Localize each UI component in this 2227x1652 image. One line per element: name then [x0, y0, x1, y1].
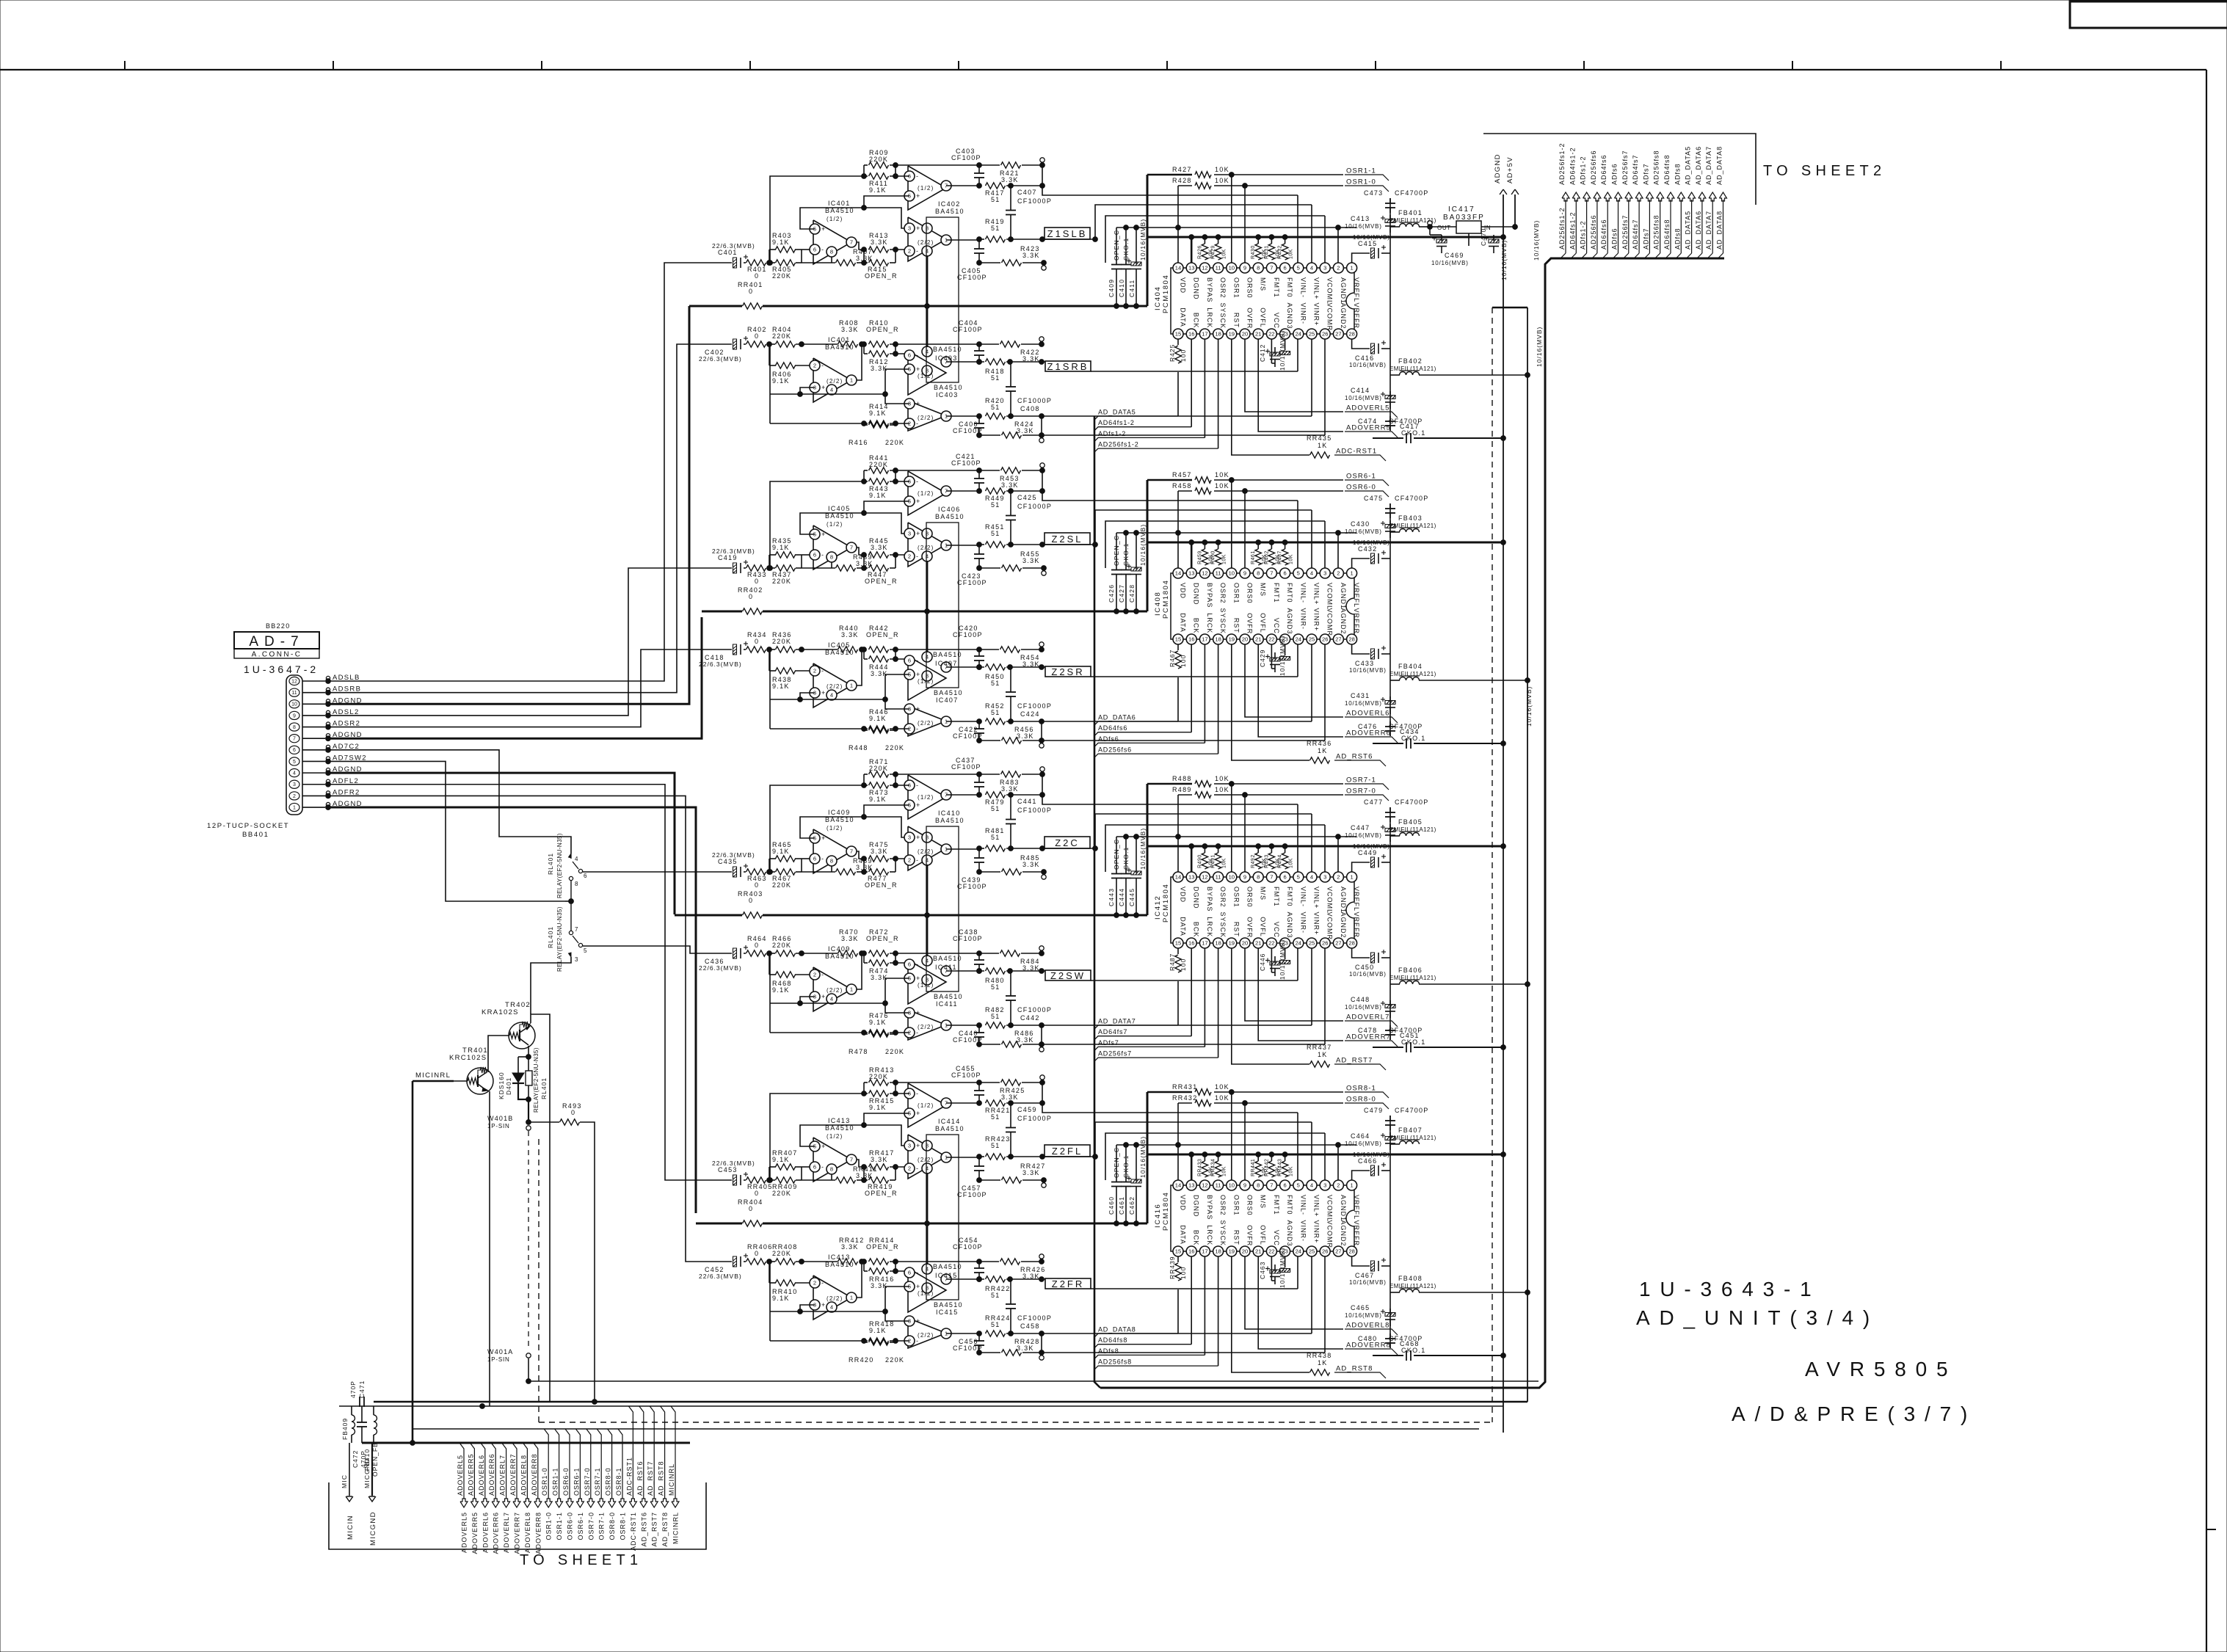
- wire: [802, 1166, 810, 1168]
- node ADfs1-2 to sheet2: [1583, 192, 1591, 201]
- pin 6 AD7C2: [289, 746, 299, 754]
- wire top rail: [979, 164, 1000, 166]
- resistor R438 9.1K: [776, 668, 796, 674]
- svg-text:FMT0: FMT0: [1286, 887, 1293, 907]
- wire: [769, 249, 776, 250]
- svg-text:+: +: [821, 1301, 825, 1309]
- power box: [926, 826, 959, 991]
- svg-text:9.1K: 9.1K: [869, 1327, 887, 1334]
- svg-text:ADOVERL5: ADOVERL5: [1346, 404, 1390, 412]
- wire TR402 collector: [528, 1046, 529, 1057]
- border frame: [0, 69, 2206, 70]
- wire AD7SW2 route: [328, 761, 565, 901]
- resistor RR405 0: [746, 1177, 766, 1183]
- resistor R470 3.3K: [838, 950, 858, 956]
- op-amp IC410 (2/2): [908, 826, 946, 870]
- ferrite bead FB401 EMIFIL: [1390, 226, 1400, 228]
- svg-text:28: 28: [1348, 1248, 1354, 1255]
- svg-text:KRC102S: KRC102S: [449, 1054, 487, 1062]
- svg-text:10/16(MVB): 10/16(MVB): [1536, 327, 1543, 367]
- svg-text:VREFL: VREFL: [1353, 583, 1360, 608]
- svg-text:DATA: DATA: [1180, 613, 1187, 633]
- wire Z out riser: [1095, 510, 1312, 545]
- svg-text:21: 21: [1255, 331, 1261, 338]
- svg-text:R487: R487: [1278, 550, 1283, 564]
- svg-text:+: +: [916, 834, 920, 841]
- svg-text:IC406: IC406: [938, 506, 961, 513]
- svg-text:10K: 10K: [1222, 554, 1227, 564]
- node AD+5V: [1514, 194, 1516, 230]
- svg-text:-: -: [916, 725, 918, 732]
- svg-text:5: 5: [1297, 265, 1300, 272]
- svg-text:VINR-: VINR-: [1299, 608, 1307, 630]
- svg-text:3: 3: [1323, 874, 1326, 881]
- pin 5 AD7SW2: [289, 757, 299, 765]
- svg-text:1: 1: [1350, 570, 1353, 577]
- svg-text:MICIN: MICIN: [346, 1515, 355, 1540]
- wire ADFL2 route: [328, 785, 732, 1180]
- svg-text:C477: C477: [1364, 798, 1383, 806]
- svg-text:9.1K: 9.1K: [869, 186, 887, 194]
- svg-text:0: 0: [755, 881, 759, 889]
- svg-text:AD_RST8: AD_RST8: [1336, 1365, 1373, 1373]
- svg-text:RR436: RR436: [1307, 740, 1332, 747]
- svg-text:+: +: [916, 498, 920, 505]
- wire 5+ rail: [885, 1287, 909, 1311]
- svg-text:6: 6: [908, 352, 911, 359]
- svg-text:11: 11: [1216, 1182, 1221, 1189]
- wire RST net: [1232, 339, 1309, 455]
- svg-text:13: 13: [1188, 1182, 1194, 1189]
- wire MICINRL down thick: [412, 1081, 414, 1443]
- svg-text:C412: C412: [1259, 344, 1266, 362]
- svg-text:R462: R462: [1264, 550, 1269, 564]
- svg-text:3.3K: 3.3K: [1022, 861, 1040, 868]
- wire: [1006, 666, 1045, 668]
- resistor R469 3.3K: [836, 869, 856, 875]
- wire 3+ to rail: [885, 394, 909, 404]
- svg-text:AGND1: AGND1: [1340, 583, 1347, 609]
- svg-text:10/16(MVB): 10/16(MVB): [1345, 395, 1382, 401]
- capacitor C416 10/16(MVB): [1371, 343, 1375, 354]
- svg-text:R459: R459: [1197, 550, 1202, 564]
- capacitor C426 OPEN_C: [1116, 533, 1117, 570]
- svg-text:4: 4: [1310, 874, 1313, 881]
- svg-text:OPEN_R: OPEN_R: [865, 578, 898, 585]
- svg-text:51: 51: [991, 1142, 1000, 1149]
- node AD_RST6 to sheet1: [639, 1406, 644, 1499]
- svg-text:AD64fs6: AD64fs6: [1600, 219, 1607, 250]
- svg-text:VREFL: VREFL: [1353, 277, 1360, 302]
- svg-text:R448: R448: [849, 744, 868, 752]
- node AD64fs6: [1094, 732, 1191, 736]
- svg-text:EMIFIL(11A121): EMIFIL(11A121): [1389, 1283, 1436, 1289]
- svg-text:51: 51: [991, 1321, 1000, 1328]
- svg-text:ADOVERR6: ADOVERR6: [488, 1453, 495, 1496]
- svg-text:3.3K: 3.3K: [1022, 557, 1040, 564]
- capacitor C420 CF100P: [978, 649, 980, 656]
- svg-text:CF100P: CF100P: [953, 326, 983, 333]
- svg-text:13: 13: [1188, 874, 1194, 881]
- resistor R450 51: [986, 664, 1006, 670]
- node AD_DATA8 to sheet2: [1720, 192, 1727, 201]
- op-amp IC406 (1/2) top: [908, 471, 946, 515]
- svg-text:(1/2): (1/2): [918, 490, 934, 497]
- svg-text:10/16(MVB): 10/16(MVB): [1353, 843, 1390, 850]
- svg-text:AD256fs6: AD256fs6: [1098, 746, 1132, 754]
- wire VREFL cap: [1365, 262, 1366, 263]
- svg-text:CF100P: CF100P: [953, 1243, 983, 1251]
- svg-text:3.3K: 3.3K: [841, 1243, 859, 1251]
- wire FB401 out: [1419, 226, 1430, 228]
- svg-text:1P-SIN: 1P-SIN: [487, 1123, 510, 1129]
- wire bottom rail lower: [979, 1352, 1000, 1353]
- svg-text:(1/2): (1/2): [918, 1102, 934, 1109]
- wire bottom bus 1: [528, 1380, 1538, 1382]
- node AD64fs7 to sheet2: [1635, 192, 1643, 201]
- svg-text:AD_DATA8: AD_DATA8: [1098, 1326, 1136, 1333]
- svg-text:AD256fs1-2: AD256fs1-2: [1098, 441, 1139, 448]
- wire ADGND 4 route thick: [328, 773, 675, 914]
- svg-text:AD64fs6: AD64fs6: [1098, 724, 1127, 732]
- capacitor C459 CF1000P: [1010, 1103, 1011, 1128]
- wire bottom rail: [979, 1179, 1000, 1181]
- node Z1SLB: [1045, 228, 1090, 239]
- resistor RR423 51: [986, 1154, 1006, 1160]
- svg-text:IC407: IC407: [936, 696, 959, 704]
- wire: [979, 649, 999, 650]
- svg-text:IC411: IC411: [935, 964, 957, 971]
- wire pin7 to R: [857, 851, 864, 859]
- svg-text:CF100P: CF100P: [957, 883, 987, 890]
- svg-text:-: -: [821, 246, 824, 253]
- resistor R484 3.3K: [1000, 950, 1020, 956]
- svg-text:19: 19: [1229, 1248, 1235, 1255]
- svg-text:DGND: DGND: [1193, 277, 1200, 300]
- resistor R488 10K: [1195, 781, 1211, 787]
- wire: [744, 1261, 746, 1262]
- op-amp IC413 (2/2): [813, 1276, 851, 1320]
- svg-text:10K: 10K: [1289, 1166, 1294, 1176]
- svg-text:OSR1-0: OSR1-0: [545, 1512, 553, 1540]
- svg-text:220K: 220K: [772, 272, 791, 280]
- wire ADGND 7 route thick: [328, 617, 702, 738]
- resistor R493 0: [528, 1121, 559, 1123]
- resistor R452 51: [986, 718, 1006, 724]
- svg-text:R493: R493: [1264, 854, 1269, 868]
- node AD64fs8: [1094, 1344, 1191, 1348]
- node ADfs7: [1094, 1047, 1205, 1050]
- svg-text:R432: R432: [1278, 245, 1283, 259]
- svg-text:3.3K: 3.3K: [1022, 252, 1040, 259]
- svg-text:VINL-: VINL-: [1299, 583, 1307, 603]
- svg-text:ADOVERR8: ADOVERR8: [534, 1512, 542, 1554]
- svg-text:C471: C471: [358, 1380, 366, 1398]
- resistor RR425 3.3K: [1001, 1080, 1021, 1085]
- svg-text:VINL+: VINL+: [1313, 277, 1320, 299]
- svg-text:AD64fs1-2: AD64fs1-2: [1569, 147, 1576, 185]
- svg-text:3.3K: 3.3K: [871, 239, 888, 246]
- node Z2FR: [1045, 1278, 1091, 1289]
- svg-text:C431: C431: [1351, 692, 1370, 699]
- svg-text:C461: C461: [1118, 1196, 1125, 1215]
- svg-text:3: 3: [908, 1143, 911, 1149]
- resistor RR437 1K: [1310, 1061, 1330, 1067]
- svg-text:AD64fs1-2: AD64fs1-2: [1098, 419, 1135, 426]
- svg-text:OVFR: OVFR: [1246, 1225, 1254, 1246]
- svg-text:15: 15: [1175, 940, 1181, 947]
- svg-text:13: 13: [1188, 265, 1194, 272]
- svg-text:OSR1-1: OSR1-1: [552, 1467, 559, 1496]
- node ADGND: [1503, 194, 1504, 1433]
- svg-text:OVFR: OVFR: [1246, 308, 1254, 329]
- wire third out to ADC: [1042, 1333, 1312, 1334]
- wire TR401 emitter: [489, 1091, 490, 1406]
- wire opamp1 out up: [857, 1262, 862, 1298]
- svg-text:BA4510: BA4510: [935, 513, 964, 520]
- svg-text:2: 2: [908, 857, 911, 864]
- svg-text:ORS0: ORS0: [1246, 277, 1254, 299]
- svg-text:BA4510: BA4510: [934, 384, 963, 391]
- svg-text:19: 19: [1229, 636, 1235, 643]
- resistor R478 220K: [869, 1031, 889, 1037]
- resistor R424 3.3K: [1002, 432, 1022, 438]
- svg-text:ADGND: ADGND: [1494, 153, 1502, 183]
- wire ground bus thick: [689, 305, 742, 308]
- node ADC-RST1: [1334, 455, 1386, 461]
- wire ADSLB route: [328, 263, 732, 681]
- wire: [831, 562, 832, 568]
- wire: [857, 1179, 868, 1181]
- wire third out to ADC: [1042, 721, 1312, 722]
- svg-text:C459: C459: [1017, 1106, 1037, 1113]
- wire plus rail: [800, 817, 909, 838]
- svg-text:PCM1804: PCM1804: [1162, 1192, 1170, 1231]
- svg-text:EMIFIL(11A121): EMIFIL(11A121): [1389, 671, 1436, 677]
- op-amp IC402 (1/2) top: [908, 166, 946, 210]
- pin 9 ADSL2: [289, 711, 299, 719]
- wire bottom rail lower: [979, 1044, 1000, 1045]
- svg-text:9.1K: 9.1K: [772, 1295, 790, 1302]
- resistor R468 9.1K: [776, 972, 796, 978]
- resistor R456 3.3K: [1002, 738, 1022, 743]
- wire: [1006, 1278, 1045, 1280]
- svg-text:Z2FR: Z2FR: [1052, 1278, 1085, 1289]
- svg-text:1: 1: [1350, 874, 1353, 881]
- svg-text:10: 10: [1229, 570, 1235, 577]
- svg-text:6: 6: [813, 856, 816, 862]
- svg-text:ADOVERR5: ADOVERR5: [1346, 424, 1391, 432]
- svg-text:20: 20: [1242, 331, 1248, 338]
- op-amp IC414 (1/2) top: [908, 1083, 946, 1127]
- svg-text:RST: RST: [1232, 313, 1240, 328]
- svg-text:FB402: FB402: [1398, 357, 1423, 365]
- svg-text:VREFR: VREFR: [1353, 912, 1360, 939]
- svg-text:220K: 220K: [772, 638, 791, 645]
- svg-text:1: 1: [850, 986, 853, 993]
- wire: [769, 953, 770, 975]
- svg-text:3.3K: 3.3K: [1001, 176, 1019, 183]
- svg-text:VINR-: VINR-: [1299, 303, 1307, 325]
- svg-text:AD_UNIT(3/4): AD_UNIT(3/4): [1636, 1306, 1879, 1329]
- svg-text:R492: R492: [1251, 854, 1256, 868]
- svg-text:0: 0: [749, 593, 753, 600]
- svg-text:LRCK: LRCK: [1206, 308, 1213, 328]
- wire relay2 out: [583, 946, 732, 953]
- svg-text:ADfs8: ADfs8: [1674, 163, 1681, 185]
- svg-text:IC415: IC415: [935, 1272, 958, 1279]
- svg-text:Z2FL: Z2FL: [1052, 1146, 1083, 1157]
- wire: [769, 1262, 770, 1283]
- svg-text:OSR6-1: OSR6-1: [1346, 473, 1376, 481]
- svg-text:10K: 10K: [1215, 482, 1229, 490]
- wire: [862, 342, 867, 347]
- power box: [926, 1135, 959, 1300]
- wire out1 row: [946, 490, 979, 492]
- svg-text:3: 3: [1323, 1182, 1326, 1189]
- dashed box: [1492, 308, 1493, 1422]
- wire Z out riser: [1095, 814, 1312, 848]
- svg-text:2: 2: [1337, 570, 1340, 577]
- capacitor C450 10/16(MVB): [1371, 953, 1375, 963]
- resistor R464 0: [746, 950, 766, 956]
- svg-text:M/S: M/S: [1260, 1195, 1267, 1209]
- svg-text:AD64fs6: AD64fs6: [1600, 154, 1607, 185]
- svg-text:10/16(MVB): 10/16(MVB): [1279, 939, 1286, 980]
- svg-text:2: 2: [1337, 1182, 1340, 1189]
- resistor R471 220K top feedback: [869, 771, 889, 777]
- svg-text:LRCK: LRCK: [1206, 1225, 1213, 1245]
- resistor RR422 51: [986, 1276, 1006, 1282]
- svg-text:(1/2): (1/2): [918, 794, 934, 801]
- svg-text:RR406: RR406: [747, 1243, 773, 1251]
- svg-text:1K: 1K: [1318, 442, 1328, 449]
- svg-text:M/S: M/S: [1260, 583, 1267, 597]
- svg-text:C476: C476: [1358, 723, 1377, 730]
- svg-text:9.1K: 9.1K: [772, 848, 790, 855]
- capacitor C461 CKO.1: [1125, 1145, 1127, 1182]
- wire bottom rail: [979, 871, 1000, 873]
- svg-text:+: +: [916, 1317, 920, 1325]
- svg-text:ADOVERL7: ADOVERL7: [499, 1455, 506, 1496]
- svg-text:10/16(MVB): 10/16(MVB): [1345, 1004, 1382, 1011]
- transistor TR401 KRC102S: [467, 1068, 493, 1094]
- svg-text:220K: 220K: [772, 332, 791, 340]
- resistor RR424 51: [986, 1331, 1006, 1336]
- capacitor C452 input: [733, 1256, 737, 1267]
- op-amp IC405 (2/2): [813, 663, 851, 707]
- wire: [802, 554, 810, 556]
- svg-text:(2/2): (2/2): [918, 1332, 934, 1339]
- svg-text:220K: 220K: [772, 1190, 791, 1197]
- svg-text:CF1000P: CF1000P: [1017, 807, 1052, 814]
- svg-text:+: +: [916, 400, 920, 407]
- svg-text:AGND2: AGND2: [1340, 912, 1347, 939]
- svg-text:RR435: RR435: [1307, 434, 1332, 442]
- svg-text:ADfs7: ADfs7: [1098, 1039, 1119, 1047]
- svg-text:3.3K: 3.3K: [1017, 427, 1034, 434]
- ground stub AGND3: [1285, 339, 1286, 350]
- svg-text:IC416: IC416: [1154, 1204, 1162, 1228]
- capacitor C408 CF1000P: [1010, 362, 1011, 387]
- wire plus rail: [800, 513, 909, 534]
- svg-text:BB401: BB401: [242, 831, 269, 839]
- svg-text:BCK: BCK: [1193, 618, 1200, 634]
- IC IC416 PCM1804 body: [1171, 1185, 1354, 1251]
- svg-text:220K: 220K: [869, 765, 888, 772]
- svg-text:51: 51: [991, 225, 1000, 232]
- svg-text:27: 27: [1335, 331, 1341, 338]
- op-amp IC415 (2/2) third: [908, 1318, 946, 1348]
- node ADfs6: [1094, 743, 1205, 746]
- svg-text:9.1K: 9.1K: [869, 1104, 887, 1111]
- terminal W401B 1P-SIN: [526, 1126, 531, 1130]
- node ADOVERL6 to sheet1: [481, 1443, 485, 1499]
- svg-text:SYSCK: SYSCK: [1219, 912, 1227, 939]
- resistor R482 51: [986, 1022, 1006, 1028]
- svg-text:RR420: RR420: [849, 1356, 874, 1364]
- svg-text:+: +: [916, 1110, 920, 1117]
- node OSR8-0: [1345, 1103, 1389, 1109]
- svg-text:AVR5805: AVR5805: [1805, 1358, 1957, 1380]
- wire: [1006, 721, 1042, 722]
- svg-text:27: 27: [1335, 940, 1341, 947]
- node Z1SRB: [1045, 361, 1091, 371]
- wire 5+ to rail: [864, 501, 909, 513]
- svg-text:3.3K: 3.3K: [871, 544, 888, 551]
- svg-text:Z2SW: Z2SW: [1050, 970, 1086, 981]
- svg-text:26: 26: [1322, 331, 1328, 338]
- svg-text:RR441: RR441: [1251, 1159, 1256, 1176]
- svg-text:-: -: [916, 657, 918, 664]
- svg-text:VINR-: VINR-: [1299, 912, 1307, 934]
- svg-text:2: 2: [293, 794, 296, 799]
- node OSR8-1 to sheet1: [618, 1429, 622, 1499]
- svg-text:C443: C443: [1108, 888, 1115, 906]
- svg-text:R425: R425: [1169, 344, 1176, 362]
- wire: [744, 1179, 746, 1181]
- capacitor C410 CKO.1: [1125, 228, 1127, 265]
- svg-text:10/16(MVB): 10/16(MVB): [1345, 1140, 1382, 1147]
- svg-text:AGND1: AGND1: [1340, 1195, 1347, 1221]
- resistor R441 220K top feedback: [869, 467, 889, 473]
- svg-text:6: 6: [1283, 1182, 1286, 1189]
- svg-text:9.1K: 9.1K: [772, 544, 790, 551]
- svg-text:VCC: VCC: [1273, 313, 1280, 329]
- resistor R434 0: [746, 647, 766, 652]
- svg-text:-: -: [821, 1163, 824, 1171]
- svg-text:220K: 220K: [869, 156, 888, 163]
- wire top feedback: [864, 470, 868, 471]
- svg-text:ADOVERR6: ADOVERR6: [1346, 729, 1391, 738]
- svg-text:-: -: [916, 352, 918, 359]
- svg-text:AD_DATA5: AD_DATA5: [1685, 146, 1692, 185]
- capacitor C403 CF100P: [978, 165, 980, 173]
- svg-text:-: -: [821, 362, 824, 369]
- node ADfs1-2: [1094, 437, 1205, 441]
- svg-text:8: 8: [293, 725, 296, 730]
- svg-text:ADfs1-2: ADfs1-2: [1580, 156, 1587, 185]
- svg-text:AD_DATA5: AD_DATA5: [1098, 409, 1136, 416]
- svg-text:C472: C472: [352, 1450, 359, 1468]
- svg-text:OPEN_C: OPEN_C: [1113, 535, 1120, 566]
- svg-text:(1/2): (1/2): [827, 1133, 843, 1140]
- wire right column: [1389, 503, 1391, 736]
- svg-text:10/16(MVB): 10/16(MVB): [1345, 832, 1382, 839]
- svg-text:AD_DATA8: AD_DATA8: [1716, 146, 1723, 185]
- svg-text:ORS0: ORS0: [1246, 583, 1254, 604]
- wire AD_DATA bus vertical thick: [1094, 416, 1100, 1388]
